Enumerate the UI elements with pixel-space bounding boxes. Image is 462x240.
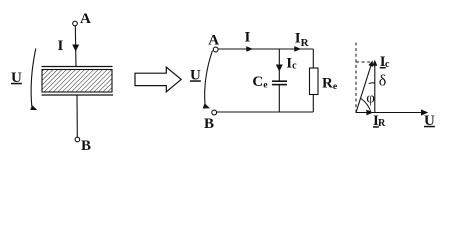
dielectric hatched block	[42, 70, 112, 93]
arrow IR	[366, 110, 373, 116]
wire A to top plate	[74, 26, 77, 67]
svg-text:φ: φ	[366, 90, 375, 106]
wire capacitor to bottom	[278, 85, 280, 112]
bottom wire	[217, 111, 313, 113]
dashed vertical reference	[355, 43, 357, 113]
top plate	[42, 66, 113, 68]
svg-text:I: I	[245, 30, 251, 46]
angle phi arc	[361, 99, 371, 113]
capacitor Ce plates	[272, 80, 287, 82]
angle delta arc tick	[369, 82, 375, 85]
svg-text:R: R	[378, 118, 386, 129]
node B	[75, 137, 80, 142]
current arrow IR	[294, 46, 301, 52]
node A	[73, 21, 78, 26]
svg-text:U: U	[190, 67, 201, 83]
capacitor branch wire	[278, 49, 280, 81]
arrow U	[421, 109, 428, 115]
voltage arc U	[205, 51, 213, 105]
svg-text:U: U	[11, 70, 22, 86]
svg-text:A: A	[208, 32, 219, 48]
top wire	[218, 48, 313, 50]
right branch wires	[312, 49, 314, 68]
resistor Re	[310, 68, 319, 95]
bottom plate	[42, 94, 114, 96]
svg-text:A: A	[80, 11, 91, 27]
svg-text:B: B	[204, 116, 214, 132]
node B	[212, 110, 217, 115]
svg-text:B: B	[81, 138, 91, 154]
dashed horizontal delta marker	[356, 61, 370, 63]
svg-text:c: c	[385, 59, 390, 70]
current arrow I	[72, 45, 79, 52]
current arrow Ic	[276, 65, 283, 72]
Ic component line	[374, 62, 376, 113]
svg-text:U: U	[424, 113, 435, 129]
axis with IR and U vectors	[356, 112, 428, 114]
implication arrow	[135, 67, 181, 92]
vector I (hypotenuse)	[356, 64, 372, 113]
voltage arc U (left)	[31, 49, 36, 107]
wire bottom plate to B	[76, 95, 78, 137]
node A	[213, 47, 218, 52]
svg-text:I: I	[58, 38, 64, 54]
current arrow I	[246, 46, 253, 52]
svg-text:δ: δ	[379, 73, 387, 90]
